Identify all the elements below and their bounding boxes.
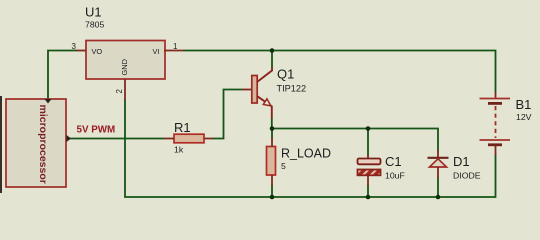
svg-text:1: 1 [173, 42, 178, 51]
resistor R1 body [174, 134, 204, 143]
wire: R_LOAD bottom to ground rail [271, 184, 273, 197]
junction dot C1 top [366, 126, 371, 131]
D1 pin stub top [437, 150, 439, 157]
R1 pin stub left [164, 138, 174, 140]
svg-text:U1: U1 [85, 5, 102, 20]
wire: mid rail emitter to C1, D1 [272, 129, 438, 151]
C1 pin stub top [367, 155, 369, 159]
wire: C1 top drop [367, 129, 369, 156]
svg-text:Q1: Q1 [277, 67, 294, 82]
svg-text:3: 3 [72, 42, 77, 51]
R_LOAD pin stub bottom [271, 175, 273, 185]
wire: mid rail down to R_LOAD [271, 129, 273, 140]
junction dot D1 bottom [436, 195, 441, 200]
svg-text:7805: 7805 [85, 20, 104, 30]
U1 pin 2 stub [124, 79, 126, 100]
U1 regulator 7805 body [86, 41, 165, 80]
R_LOAD pin stub top [271, 138, 273, 147]
svg-text:B1: B1 [516, 97, 532, 112]
svg-text:VI: VI [153, 47, 160, 56]
svg-text:VO: VO [92, 47, 103, 56]
U1 pin 1 stub [164, 50, 184, 52]
Q1 emitter [257, 96, 271, 118]
svg-text:5V PWM: 5V PWM [77, 125, 116, 136]
R1 pin stub right [204, 138, 213, 140]
C1 positive plate [358, 159, 381, 165]
wire: U1 pin3 to microprocessor top [48, 51, 77, 100]
B1 cell1 long plate [480, 98, 511, 100]
B1 cell1 short plate [488, 102, 502, 105]
svg-text:TIP122: TIP122 [277, 83, 307, 93]
C1 pin stub bottom [367, 175, 369, 185]
pin junction on microprocessor right [67, 135, 72, 142]
dark screen-edge artifact left [0, 96, 2, 193]
Q1 base bar [252, 76, 257, 104]
wire: microprocessor to R1 (5V PWM net) [70, 138, 165, 140]
D1 pin stub bottom [437, 167, 439, 178]
B1 top pin stub [495, 92, 497, 98]
junction dot C1 bottom [366, 195, 371, 200]
svg-text:R_LOAD: R_LOAD [281, 147, 331, 161]
Q1 emitter arrowhead (open) [263, 99, 271, 106]
svg-text:5: 5 [281, 161, 286, 171]
svg-text:1k: 1k [174, 145, 184, 155]
wire: U1 pin1 to battery top (VI rail) [183, 51, 496, 94]
svg-text:10uF: 10uF [385, 171, 405, 181]
wire: Q1 collector drop [271, 51, 273, 69]
B1 cell2 short plate [488, 143, 502, 146]
wire: R1 to Q1 base [212, 90, 242, 139]
Q1 collector [257, 68, 272, 82]
wire: Q1 emitter to mid rail [271, 118, 273, 129]
D1 triangle [430, 159, 447, 167]
svg-text:DIODE: DIODE [453, 171, 481, 181]
junction dot VI rail / Q1 collector [270, 48, 275, 53]
pin junction on microprocessor top [45, 99, 52, 104]
B1 dashed link [495, 106, 497, 138]
svg-text:C1: C1 [385, 154, 402, 169]
svg-text:2: 2 [115, 89, 124, 94]
microprocessor box [6, 99, 66, 187]
U1 pin 3 stub [76, 50, 86, 52]
svg-text:D1: D1 [453, 154, 470, 169]
svg-text:12V: 12V [516, 112, 532, 122]
C1 negative plate (hatched) [358, 170, 381, 176]
junction dot R_LOAD bottom [270, 195, 275, 200]
wire: C1 bottom to ground rail [367, 185, 369, 198]
B1 cell2 long plate [480, 139, 511, 141]
wire: battery bottom to ground rail to U1 pin2 [125, 99, 496, 197]
Q1 base stub [242, 89, 252, 91]
svg-text:R1: R1 [174, 120, 191, 135]
B1 bottom pin stub [495, 146, 497, 155]
wire: D1 bottom to ground rail [437, 177, 439, 197]
svg-text:microprocessor: microprocessor [37, 105, 49, 184]
D1 cathode bar [428, 157, 449, 159]
junction dot emitter / mid rail [270, 126, 275, 131]
svg-text:GND: GND [120, 59, 129, 75]
resistor R_LOAD body [267, 147, 276, 176]
